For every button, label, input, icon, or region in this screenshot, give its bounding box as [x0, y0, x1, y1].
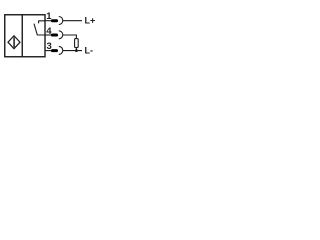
switch lever	[34, 24, 37, 35]
wire pin4 to load	[63, 35, 76, 39]
inductive sensor diamond	[8, 36, 20, 49]
connector pin 4 (plug bar)	[51, 34, 58, 37]
wire pin4 box to connector	[45, 34, 52, 36]
connector pin 3 (plug bar)	[51, 49, 58, 52]
sensor body box	[5, 15, 45, 57]
connector socket arc pin 4	[59, 31, 63, 39]
load lower lead	[75, 48, 77, 51]
diamond vertical bar	[13, 37, 15, 47]
svg-text:L-: L-	[85, 46, 94, 56]
connector pin 1 (plug bar)	[51, 19, 58, 22]
wire pin3 box to connector	[45, 50, 52, 52]
switch upper contact (pin 1 internal)	[39, 21, 45, 24]
switch lower contact (pin 4 internal)	[37, 33, 45, 36]
svg-text:L+: L+	[85, 16, 96, 26]
load box	[75, 39, 79, 48]
wire pin1 to L+	[63, 20, 82, 22]
divider line	[21, 15, 23, 57]
connector socket arc pin 1	[59, 17, 63, 25]
wire pin3 to L-	[63, 50, 82, 52]
wire pin1 box to connector	[45, 20, 52, 22]
connector socket arc pin 3	[59, 46, 63, 54]
junction dot	[75, 49, 78, 52]
